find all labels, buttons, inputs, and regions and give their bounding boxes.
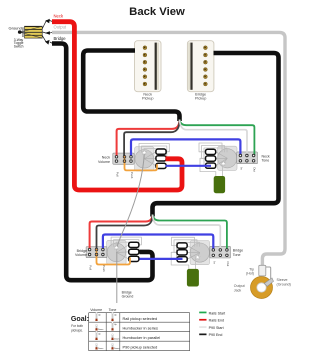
svg-text:(Ground): (Ground) [277, 283, 291, 287]
svg-text:Humbucker in parallel: Humbucker in parallel [123, 335, 161, 340]
svg-text:Push: Push [130, 172, 134, 179]
svg-text:Rail pickup selected: Rail pickup selected [123, 316, 158, 321]
svg-text:Neck: Neck [54, 13, 64, 18]
svg-text:Out: Out [253, 167, 257, 172]
svg-text:Bridge: Bridge [54, 36, 67, 41]
svg-text:P90 pickup selected: P90 pickup selected [123, 345, 158, 350]
svg-text:Pickup: Pickup [195, 97, 206, 101]
svg-text:Push: Push [102, 265, 106, 272]
svg-text:In: In [239, 167, 243, 170]
svg-text:Output: Output [54, 24, 67, 29]
svg-text:Pull: Pull [89, 265, 93, 270]
svg-text:Volume: Volume [75, 253, 87, 257]
svg-text:P90 Start: P90 Start [209, 326, 224, 330]
svg-text:Volume: Volume [98, 160, 110, 164]
svg-text:Back View: Back View [129, 6, 185, 18]
svg-text:Switch: Switch [14, 44, 24, 48]
svg-text:Rails End: Rails End [209, 319, 224, 323]
svg-text:Ground: Ground [122, 294, 134, 298]
svg-text:Pull: Pull [116, 172, 120, 177]
svg-text:(Hot): (Hot) [246, 272, 254, 276]
svg-text:Tone: Tone [233, 253, 241, 257]
svg-text:Down: Down [98, 329, 104, 331]
svg-text:Jack: Jack [234, 288, 242, 292]
svg-text:Humbucker in series: Humbucker in series [123, 326, 159, 331]
svg-text:Tone: Tone [109, 308, 117, 312]
svg-text:Volume: Volume [90, 308, 102, 312]
svg-text:Out: Out [226, 261, 230, 266]
svg-text:Down: Down [114, 348, 120, 350]
svg-text:Rails Start: Rails Start [209, 311, 226, 315]
svg-text:Down: Down [98, 348, 104, 350]
svg-text:Pickup: Pickup [142, 97, 153, 101]
svg-text:pickups.: pickups. [71, 328, 83, 332]
svg-text:Down: Down [114, 339, 120, 341]
svg-text:Ground: Ground [9, 25, 22, 30]
svg-text:For both: For both [71, 324, 83, 328]
svg-text:Tone: Tone [262, 159, 270, 163]
svg-text:P90 End: P90 End [209, 333, 223, 337]
svg-text:In: In [212, 261, 216, 264]
svg-text:Goal:: Goal: [71, 315, 89, 323]
